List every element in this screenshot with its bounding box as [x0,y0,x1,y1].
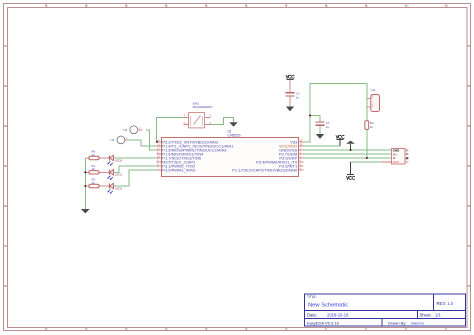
svg-text:LED1: LED1 [115,173,123,177]
svg-text:1k: 1k [92,153,96,157]
svg-text:TITLE:: TITLE: [307,295,317,299]
svg-text:lolerino: lolerino [411,321,425,326]
svg-text:D: D [5,164,7,168]
svg-text:SKQGADE010: SKQGADE010 [193,105,213,109]
svg-text:1k: 1k [370,125,374,129]
svg-text:P1.1/T2EX/CAP2/TIN1/VBUS2/AIN0: P1.1/T2EX/CAP2/TIN1/VBUS2/AIN0 [232,167,298,172]
svg-text:C: C [468,124,470,128]
svg-text:B: B [468,84,470,88]
svg-text:B: B [5,84,7,88]
svg-text:3: 3 [210,114,212,118]
svg-text:G: G [468,284,470,288]
svg-text:REV: 1.0: REV: 1.0 [437,301,454,306]
svg-text:EasyEDA V5.9.16: EasyEDA V5.9.16 [307,321,340,326]
svg-text:P3.0/PWM1_/RXD: P3.0/PWM1_/RXD [162,167,195,172]
svg-text:A: A [5,44,7,48]
svg-text:Date:: Date: [307,313,317,318]
svg-text:1u: 1u [296,95,300,99]
svg-text:New Schematic: New Schematic [308,303,348,309]
svg-text:1k: 1k [92,167,96,171]
svg-text:U2: U2 [111,138,115,142]
svg-text:U3: U3 [123,128,127,132]
svg-text:G: G [5,284,7,288]
svg-text:CH552G: CH552G [228,133,242,137]
svg-text:LED0: LED0 [115,158,123,162]
svg-text:1k: 1k [92,181,96,185]
svg-text:VCC: VCC [393,160,400,164]
svg-text:D: D [468,164,470,168]
svg-text:A: A [468,44,470,48]
svg-text:LED2: LED2 [115,186,123,190]
svg-text:E: E [5,204,7,208]
svg-text:1u: 1u [326,125,330,129]
svg-text:Sheet:: Sheet: [420,313,432,318]
svg-text:2018-10-16: 2018-10-16 [327,313,349,318]
svg-text:E: E [468,204,470,208]
svg-text:1/1: 1/1 [435,313,441,318]
svg-text:C: C [5,124,7,128]
svg-text:H1: H1 [371,88,375,92]
svg-text:Drawn By:: Drawn By: [388,321,406,326]
